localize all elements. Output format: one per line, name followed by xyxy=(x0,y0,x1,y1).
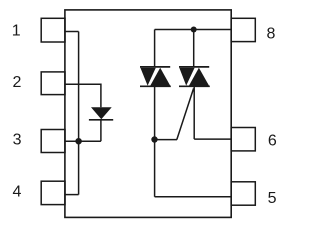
wire gate diagonal xyxy=(177,88,194,139)
thyristor T2 right triangle xyxy=(189,68,209,86)
svg-text:8: 8 xyxy=(267,25,276,42)
svg-text:3: 3 xyxy=(13,131,22,148)
node junction gate/T1 xyxy=(151,136,157,142)
svg-text:6: 6 xyxy=(268,133,277,150)
thyristor T1 left triangle xyxy=(140,68,155,86)
wire vertical pin1-pin3-pin4 bus xyxy=(78,32,80,195)
thyristor T1 right triangle xyxy=(150,68,170,86)
wire T2 bottom to pin6 xyxy=(193,86,195,139)
pin 1 pad xyxy=(41,18,65,42)
pin 2 pad xyxy=(41,72,65,95)
wire gate stub xyxy=(155,139,178,141)
node junction pin3/bus xyxy=(75,138,82,145)
svg-text:1: 1 xyxy=(12,22,21,39)
svg-text:4: 4 xyxy=(13,183,22,200)
wire pin1 stub xyxy=(65,31,79,33)
pin 6 pad xyxy=(231,128,255,151)
thyristor T1 top bar xyxy=(140,66,170,68)
wire pin8 top rail xyxy=(155,29,232,31)
wire pin6 xyxy=(194,138,231,140)
wire pin4 stub xyxy=(65,194,79,196)
thyristor T2 bottom bar xyxy=(179,85,210,87)
pin 8 pad xyxy=(231,18,255,41)
thyristor T1 bottom bar xyxy=(140,85,171,87)
wire diode cathode down xyxy=(100,120,102,141)
wire pin2 to diode anode xyxy=(65,84,101,107)
wire T1 bottom to pin5 rail xyxy=(154,86,156,197)
thyristor T2 top bar xyxy=(179,66,209,68)
svg-text:5: 5 xyxy=(268,190,277,207)
node junction top rail xyxy=(191,27,197,33)
svg-text:2: 2 xyxy=(13,74,22,91)
pin 4 pad xyxy=(41,181,65,204)
wire pin3 xyxy=(65,140,101,142)
wire pin5 xyxy=(155,196,232,198)
IC body U1 xyxy=(65,10,231,218)
wire top rail to thyristor T2 xyxy=(193,30,195,67)
wire top rail to thyristor T1 xyxy=(154,30,156,67)
pin 3 pad xyxy=(41,130,65,153)
pin 5 pad xyxy=(231,182,255,205)
diode D1 xyxy=(91,107,112,119)
thyristor T2 left triangle xyxy=(179,68,194,86)
